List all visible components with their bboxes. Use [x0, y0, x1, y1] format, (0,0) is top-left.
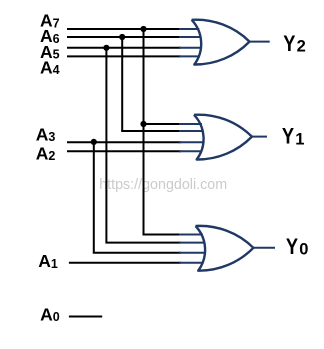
wire A6 vertical branch — [121, 37, 123, 131]
wire Y0 input2 from A5 branch — [105, 242, 181, 244]
or-gate U2 (Y1) body — [194, 115, 252, 160]
wire A3 vertical branch — [93, 142, 95, 253]
wire A6 horizontal — [67, 36, 181, 38]
wire A1 horizontal — [69, 262, 181, 264]
or-gate U1 (Y2) input stubs — [179, 29, 201, 56]
wire Y0 input1 from A7 branch — [143, 234, 182, 236]
wire A4 horizontal — [67, 55, 181, 57]
or-gate U2 (Y1) output wire — [252, 136, 267, 138]
junction dot A7-col at Y1 input1 — [140, 121, 146, 127]
wire Y1 input2 from A6 branch — [121, 130, 181, 132]
wire A7 vertical branch — [143, 29, 145, 235]
or-gate U1 (Y2) body — [192, 20, 250, 65]
junction dot A5-col on A5 line — [103, 45, 109, 51]
junction dot A6-col on A6 line — [119, 34, 125, 40]
junction dot A3-col on A3 line — [91, 139, 97, 145]
wire Y1 input1 from A7 branch — [143, 123, 182, 125]
svg-text:https://gongdoli.com: https://gongdoli.com — [99, 177, 227, 193]
junction dot A7-col on A7 line — [140, 26, 146, 32]
or-gate U3 (Y0) body — [196, 226, 254, 271]
or-gate U3 (Y0) input stubs — [179, 235, 205, 263]
or-gate U2 (Y1) input stubs — [179, 124, 204, 151]
wire Y0 input3 from A3 branch — [93, 252, 181, 254]
or-gate U1 (Y2) output wire — [250, 41, 270, 43]
wire A2 horizontal — [67, 150, 181, 152]
wire A7 horizontal — [67, 28, 181, 30]
wire A3 horizontal — [67, 141, 181, 143]
wire A5 horizontal — [67, 47, 181, 49]
wire A5 vertical branch — [105, 48, 107, 243]
wire A0 horizontal (unconnected) — [69, 316, 102, 318]
or-gate U3 (Y0) output wire — [253, 247, 275, 249]
